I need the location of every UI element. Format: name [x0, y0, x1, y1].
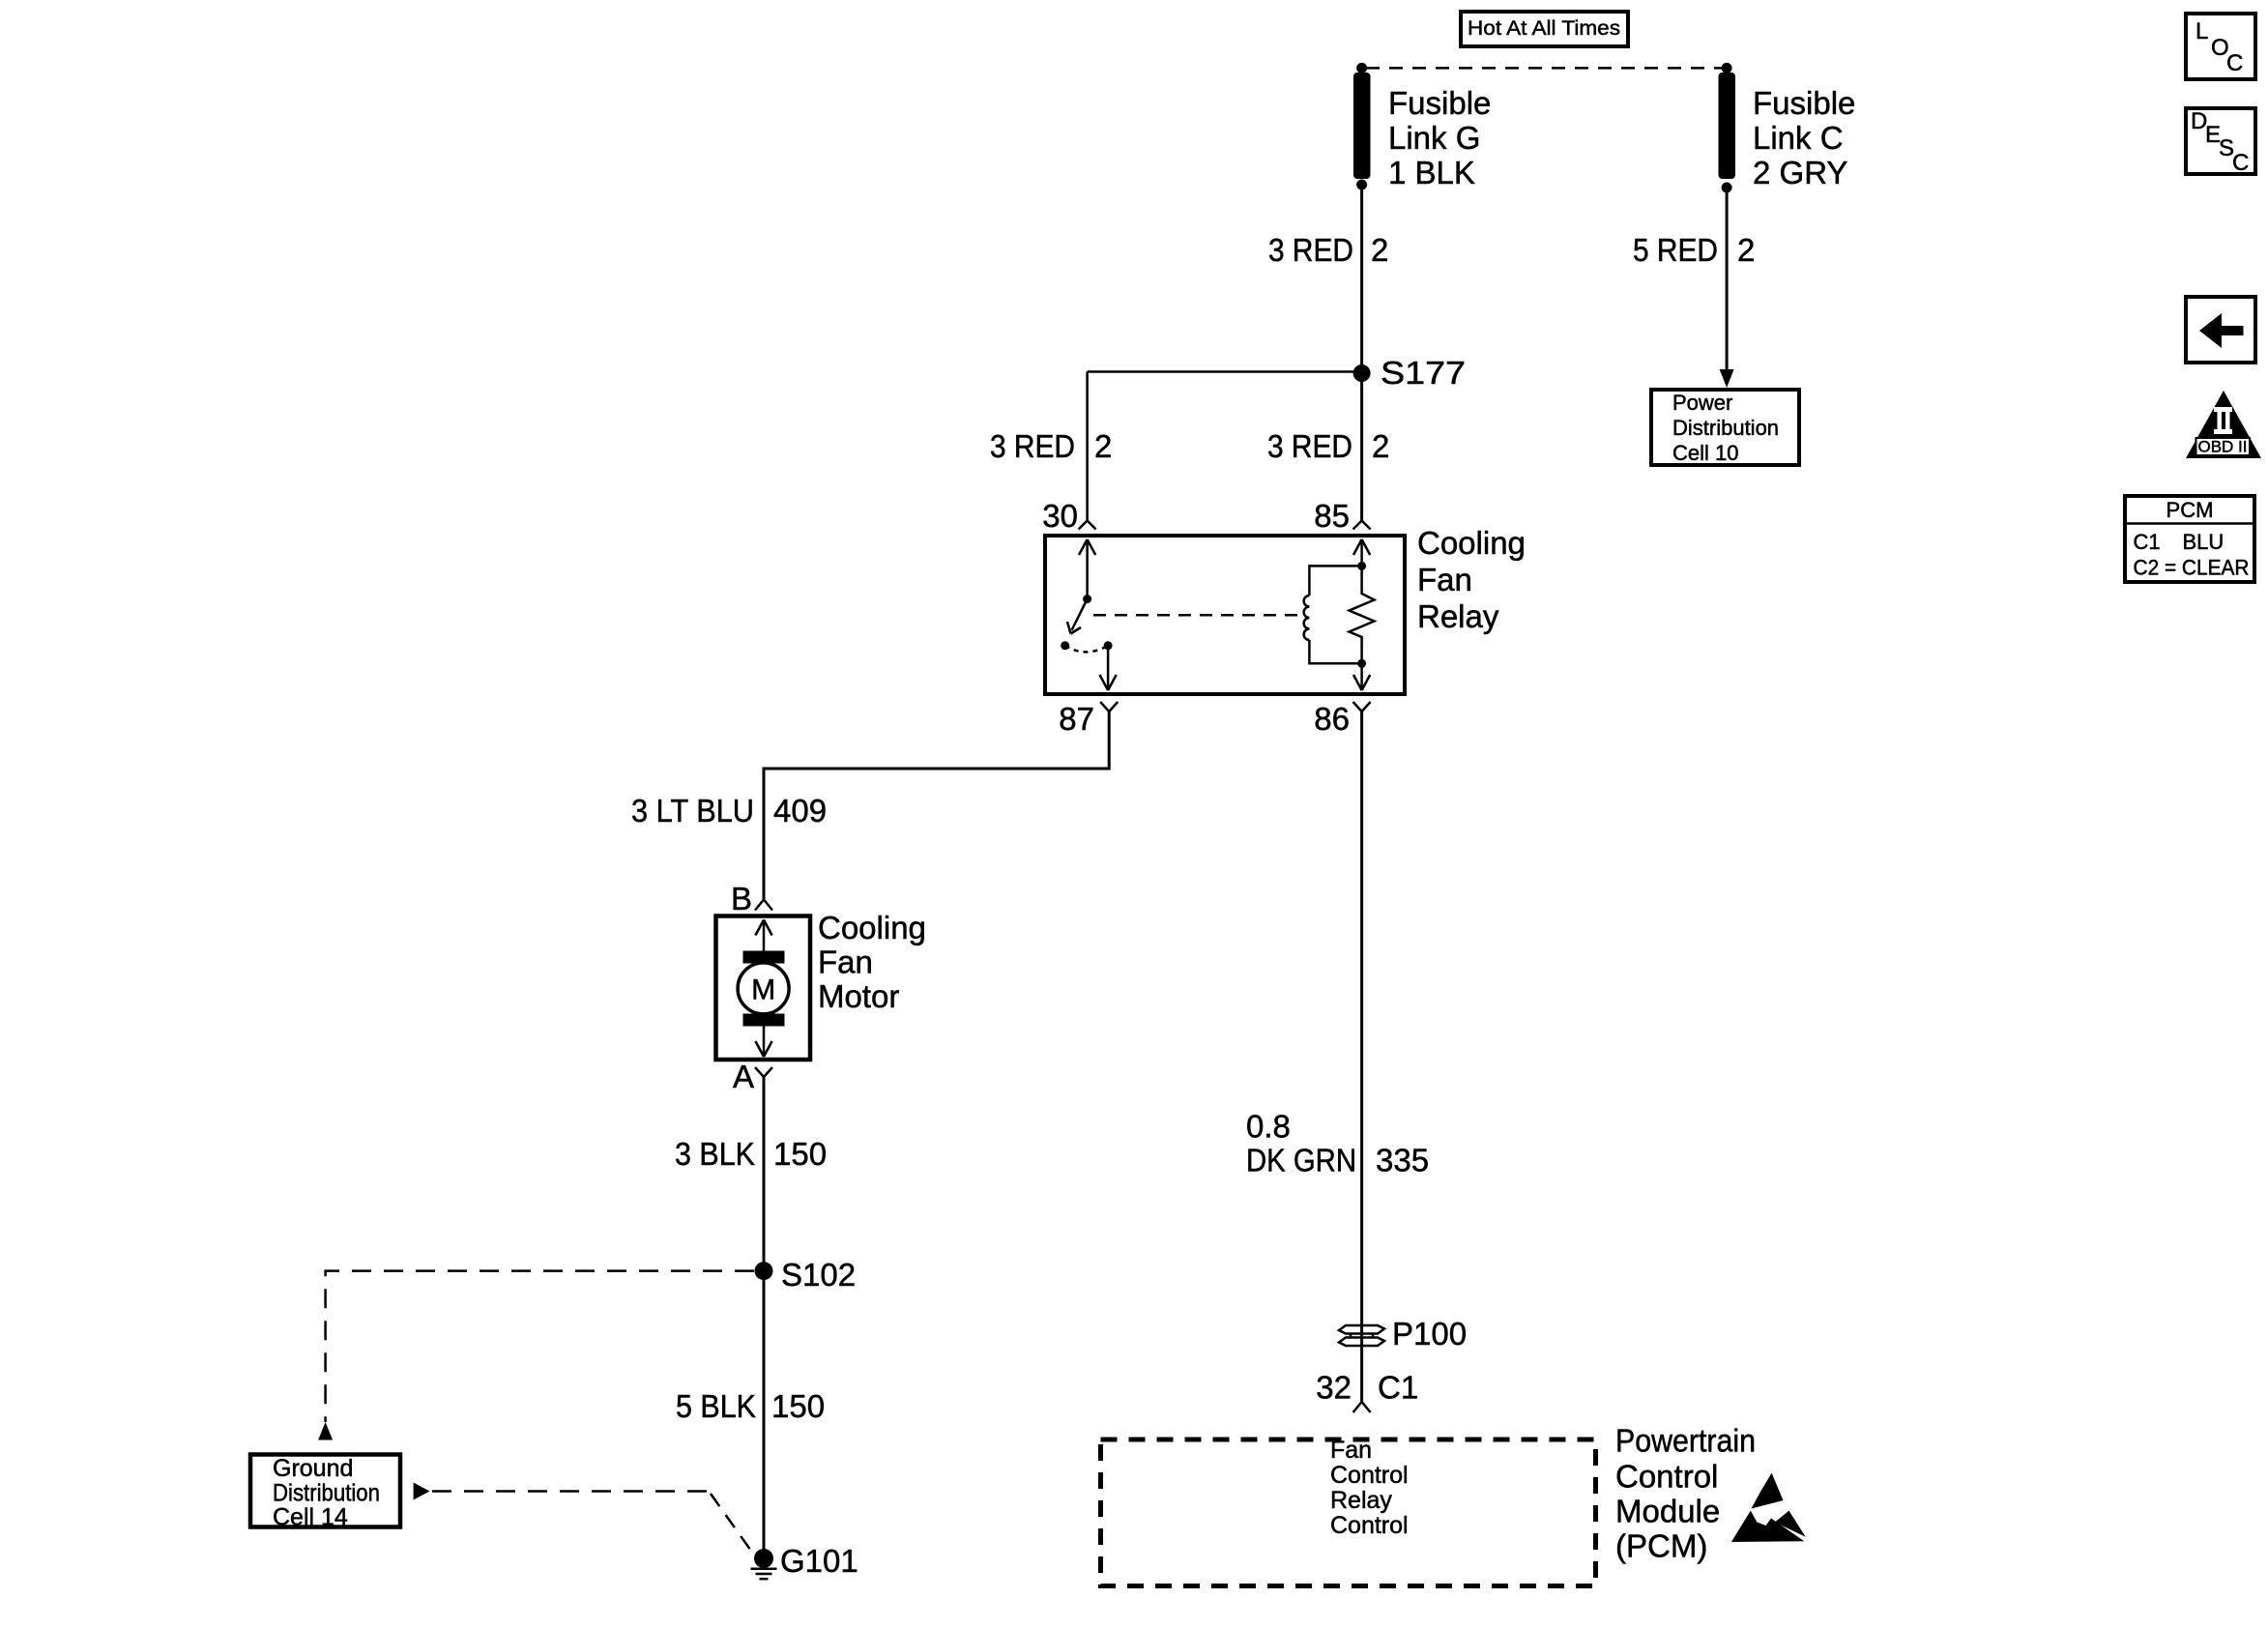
- ground distribution cell 14 box: [250, 1455, 400, 1531]
- label 3 RED 2 at pin 30: [990, 428, 1112, 464]
- svg-text:Fusible: Fusible: [1388, 85, 1491, 121]
- label 3 BLK 150: [675, 1136, 827, 1172]
- node dot above fusible link C: [1722, 63, 1732, 73]
- svg-text:Control: Control: [1615, 1459, 1718, 1495]
- splice S177: [1353, 364, 1371, 382]
- svg-text:Motor: Motor: [818, 978, 899, 1014]
- svg-text:M: M: [751, 974, 775, 1006]
- svg-text:L: L: [2195, 18, 2208, 44]
- svg-text:BLU: BLU: [2183, 530, 2224, 554]
- relay pin 86 internal arrow: [1353, 663, 1370, 690]
- svg-text:32: 32: [1316, 1370, 1352, 1406]
- relay pin 85 internal arrow: [1353, 539, 1370, 566]
- cooling fan relay box: [1045, 536, 1405, 694]
- arrowhead up to S102 path: [318, 1422, 333, 1440]
- node dot above fusible link G: [1356, 63, 1367, 73]
- wire branch down to relay pin 30: [1086, 372, 1089, 521]
- svg-text:86: 86: [1314, 701, 1350, 737]
- motor internal arrow down: [755, 1026, 771, 1057]
- svg-text:3 RED: 3 RED: [990, 428, 1075, 464]
- svg-text:2 GRY: 2 GRY: [1753, 155, 1847, 190]
- svg-text:S177: S177: [1381, 355, 1466, 391]
- wire branch from S177 left: [1088, 370, 1362, 373]
- svg-text:Module: Module: [1615, 1494, 1720, 1529]
- label 3 RED 2 upper: [1268, 232, 1388, 268]
- svg-text:3 BLK: 3 BLK: [675, 1136, 755, 1172]
- svg-text:3 LT BLU: 3 LT BLU: [631, 793, 754, 829]
- svg-text:Powertrain: Powertrain: [1615, 1423, 1756, 1459]
- relay pin 87 internal arrow: [1100, 646, 1117, 690]
- pin A terminal: [755, 1067, 772, 1077]
- powertrain control module dashed box: [1101, 1439, 1596, 1586]
- arrowhead right from ground distribution box: [414, 1483, 430, 1500]
- relay coil junction dot bottom: [1357, 659, 1366, 668]
- svg-text:C: C: [2232, 150, 2249, 176]
- relay switch contact dot left: [1061, 641, 1069, 650]
- svg-text:Relay: Relay: [1330, 1487, 1392, 1514]
- svg-text:Power: Power: [1672, 391, 1732, 415]
- svg-text:Cooling: Cooling: [818, 910, 926, 945]
- pin 87 terminal: [1100, 702, 1118, 712]
- svg-text:5 RED: 5 RED: [1633, 232, 1718, 268]
- pin 32 terminal: [1353, 1402, 1371, 1412]
- relay dashed actuation link: [1093, 614, 1298, 617]
- wire dashed hot feed rail: [1366, 67, 1723, 70]
- svg-text:Control: Control: [1330, 1462, 1409, 1489]
- pin 85 terminal: [1353, 521, 1371, 530]
- svg-text:Fan: Fan: [818, 945, 873, 980]
- svg-text:87: 87: [1059, 701, 1094, 737]
- svg-text:2: 2: [1372, 428, 1389, 464]
- wire from S177 down to relay pin 85: [1360, 373, 1363, 521]
- svg-text:0.8: 0.8: [1246, 1109, 1291, 1145]
- relay switch dashed travel arc: [1065, 646, 1108, 653]
- label cooling fan relay: [1417, 525, 1526, 634]
- svg-text:335: 335: [1376, 1143, 1429, 1178]
- svg-text:DK GRN: DK GRN: [1246, 1143, 1356, 1178]
- power distribution cell 10 box: [1651, 390, 1799, 465]
- wire P100 to PCM pin 32: [1360, 1346, 1363, 1402]
- label fusible link C: [1753, 85, 1855, 190]
- wire 3 RED 2 from link G to S177: [1360, 185, 1363, 373]
- dashed ground reference to G101: [432, 1490, 710, 1493]
- svg-text:2: 2: [1094, 428, 1112, 464]
- svg-text:409: 409: [773, 793, 827, 829]
- svg-text:PCM: PCM: [2166, 498, 2214, 522]
- svg-text:Distribution: Distribution: [273, 1480, 380, 1507]
- wire motor A to G101: [763, 1077, 766, 1550]
- svg-text:30: 30: [1042, 498, 1078, 534]
- dashed diagonal to G101: [711, 1494, 753, 1554]
- label 32 C1: [1316, 1370, 1418, 1406]
- relay pin 30 internal arrow: [1079, 539, 1095, 599]
- relay coil junction dot top: [1357, 562, 1366, 570]
- sidebar DESC box: [2186, 108, 2255, 176]
- sidebar OBD II symbol: [2186, 391, 2261, 458]
- hot at all times box: [1461, 12, 1628, 46]
- svg-text:3 RED: 3 RED: [1268, 232, 1353, 268]
- svg-text:2: 2: [1371, 232, 1388, 268]
- svg-text:C1: C1: [2134, 530, 2161, 554]
- svg-text:Fan: Fan: [1417, 562, 1472, 597]
- pin B terminal: [755, 900, 772, 911]
- svg-text:Cell 14: Cell 14: [273, 1504, 348, 1531]
- svg-text:2: 2: [1737, 232, 1755, 268]
- svg-text:Cooling: Cooling: [1417, 525, 1526, 561]
- label 3 RED 2 at pin 85: [1267, 428, 1389, 464]
- sidebar PCM connector table: [2125, 496, 2254, 582]
- relay resistor: [1350, 566, 1375, 663]
- svg-text:Hot At All Times: Hot At All Times: [1468, 17, 1620, 40]
- svg-text:5 BLK: 5 BLK: [676, 1388, 756, 1424]
- relay switch contact dot right: [1104, 641, 1113, 650]
- svg-text:G101: G101: [780, 1543, 858, 1579]
- svg-text:A: A: [733, 1059, 754, 1094]
- pin 30 terminal: [1079, 521, 1096, 530]
- svg-text:Ground: Ground: [273, 1455, 353, 1482]
- sidebar LOC box: [2186, 14, 2255, 79]
- label fusible link G: [1388, 85, 1491, 190]
- label cooling fan motor: [818, 910, 926, 1014]
- relay switch arm with arrowhead: [1067, 599, 1088, 634]
- svg-text:Link C: Link C: [1753, 120, 1844, 156]
- svg-text:1 BLK: 1 BLK: [1388, 155, 1475, 190]
- label 0.8 DK GRN 335: [1246, 1109, 1429, 1178]
- svg-text:OBD II: OBD II: [2197, 438, 2247, 456]
- splice S102: [755, 1262, 773, 1280]
- motor brush top: [743, 951, 785, 964]
- motor internal arrow up: [755, 920, 771, 952]
- pin 86 terminal: [1353, 702, 1371, 712]
- fusible link C: [1719, 73, 1736, 193]
- fusible link G: [1353, 73, 1371, 190]
- svg-text:B: B: [731, 881, 752, 916]
- cooling fan motor box: [716, 916, 811, 1061]
- sidebar back arrow box: [2186, 297, 2255, 363]
- relay switch pivot dot: [1083, 595, 1091, 603]
- svg-text:Fan: Fan: [1330, 1437, 1372, 1464]
- grommet P100: [1339, 1325, 1384, 1346]
- wire pin 86 down to P100: [1360, 712, 1363, 1325]
- motor brush bottom: [743, 1014, 785, 1027]
- label 5 BLK 150: [676, 1388, 825, 1424]
- label 3 LT BLU 409: [631, 793, 827, 829]
- svg-text:3 RED: 3 RED: [1267, 428, 1352, 464]
- svg-text:C1: C1: [1378, 1370, 1418, 1406]
- svg-text:Control: Control: [1330, 1512, 1409, 1539]
- svg-text:150: 150: [773, 1136, 827, 1172]
- label powertrain control module: [1615, 1423, 1756, 1564]
- svg-text:Fusible: Fusible: [1753, 85, 1855, 121]
- label 5 RED 2: [1633, 232, 1755, 268]
- svg-text:(PCM): (PCM): [1615, 1528, 1707, 1564]
- svg-text:Distribution: Distribution: [1672, 416, 1779, 440]
- motor body circle: [738, 963, 789, 1014]
- svg-text:P100: P100: [1392, 1316, 1467, 1352]
- arrowhead into power distribution box: [1720, 369, 1734, 388]
- svg-text:S102: S102: [781, 1257, 856, 1293]
- svg-text:Relay: Relay: [1417, 598, 1499, 634]
- label fan control relay control: [1330, 1437, 1409, 1539]
- svg-text:Cell 10: Cell 10: [1672, 441, 1738, 465]
- wire 5 RED 2 from link C to power distribution: [1726, 188, 1729, 372]
- svg-text:C: C: [2226, 50, 2243, 76]
- svg-text:C2 = CLEAR: C2 = CLEAR: [2134, 556, 2250, 580]
- svg-text:150: 150: [771, 1388, 825, 1424]
- ESD sensitive device symbol: [1731, 1473, 1806, 1542]
- svg-text:85: 85: [1314, 498, 1350, 534]
- dashed ground reference from S102: [326, 1271, 754, 1422]
- ground G101: [751, 1549, 777, 1579]
- relay coil: [1304, 566, 1362, 663]
- wire pin 87 to corner: [764, 712, 1109, 900]
- svg-text:Link G: Link G: [1388, 120, 1480, 156]
